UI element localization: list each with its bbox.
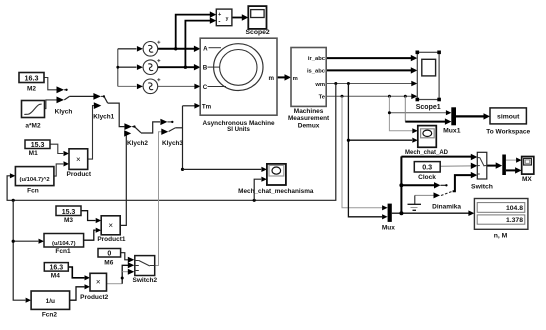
svg-text:×: × — [76, 155, 81, 164]
svg-text:0.3: 0.3 — [422, 163, 432, 172]
svg-text:Switch: Switch — [471, 184, 493, 191]
svg-text:Machines: Machines — [294, 108, 324, 115]
svg-text:Te: Te — [319, 95, 326, 101]
svg-text:Product: Product — [67, 171, 92, 178]
svg-text:Mux: Mux — [382, 224, 395, 231]
svg-text:wm: wm — [314, 82, 325, 88]
svg-text:16.3: 16.3 — [25, 74, 39, 83]
svg-text:Mech_chat_AD: Mech_chat_AD — [405, 150, 449, 156]
svg-text:104.8: 104.8 — [506, 205, 523, 212]
svg-text:M4: M4 — [51, 273, 60, 280]
svg-text:15.3: 15.3 — [31, 142, 45, 149]
svg-text:Klych1: Klych1 — [93, 114, 114, 121]
svg-text:n, M: n, M — [494, 232, 508, 239]
svg-text:Mux1: Mux1 — [443, 128, 461, 135]
svg-text:Klych2: Klych2 — [127, 140, 148, 147]
svg-text:SI Units: SI Units — [227, 126, 250, 133]
svg-text:M6: M6 — [104, 260, 113, 267]
svg-text:Fcn2: Fcn2 — [42, 311, 58, 318]
svg-text:1.378: 1.378 — [506, 217, 523, 224]
svg-text:Dinamika: Dinamika — [432, 204, 461, 211]
svg-text:C: C — [203, 84, 208, 91]
svg-text:Product1: Product1 — [97, 236, 126, 243]
svg-text:1/u: 1/u — [46, 298, 55, 305]
svg-text:MX: MX — [522, 176, 532, 183]
svg-text:is_abc: is_abc — [307, 69, 326, 75]
svg-text:16.3: 16.3 — [49, 265, 63, 272]
svg-text:B: B — [203, 65, 208, 72]
svg-text:(u/104.7)^2: (u/104.7)^2 — [20, 177, 50, 183]
svg-text:Fcn: Fcn — [27, 188, 39, 195]
svg-text:To Workspace: To Workspace — [486, 128, 530, 135]
svg-text:y: y — [226, 16, 229, 22]
svg-text:Switch2: Switch2 — [133, 277, 158, 284]
svg-text:Mech_chat_mechanisma: Mech_chat_mechanisma — [238, 188, 314, 195]
svg-text:Product2: Product2 — [80, 294, 109, 301]
svg-text:Klych3: Klych3 — [162, 140, 183, 147]
svg-text:M2: M2 — [27, 85, 36, 92]
svg-text:Demux: Demux — [298, 123, 320, 130]
svg-text:×: × — [108, 221, 113, 230]
svg-text:A: A — [203, 45, 208, 52]
svg-text:simout: simout — [497, 114, 520, 121]
svg-text:M3: M3 — [64, 217, 73, 224]
svg-text:Scope1: Scope1 — [416, 104, 441, 111]
svg-text:ir_abc: ir_abc — [308, 56, 326, 62]
svg-text:Tm: Tm — [202, 103, 212, 110]
svg-text:m: m — [293, 76, 298, 82]
svg-text:Measurement: Measurement — [288, 115, 330, 122]
svg-text:Clock: Clock — [418, 174, 436, 181]
svg-text:Scope2: Scope2 — [246, 29, 270, 36]
svg-text:0: 0 — [107, 251, 111, 258]
svg-text:(u/104.7): (u/104.7) — [52, 241, 76, 247]
svg-text:m: m — [269, 75, 275, 82]
svg-text:M1: M1 — [29, 150, 38, 157]
svg-text:15.3: 15.3 — [62, 209, 76, 216]
svg-text:Fcn1: Fcn1 — [55, 248, 71, 255]
svg-text:×: × — [96, 278, 101, 287]
svg-text:a*M2: a*M2 — [25, 123, 41, 130]
svg-text:Klych: Klych — [55, 109, 73, 116]
svg-text:-: - — [218, 18, 220, 25]
